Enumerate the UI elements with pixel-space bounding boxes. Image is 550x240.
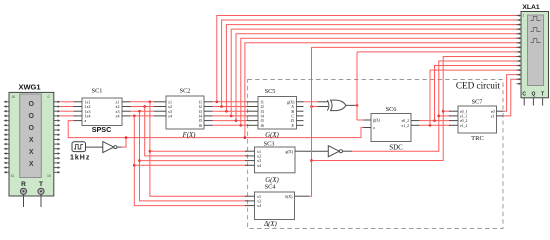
svg-text:T: T xyxy=(541,92,544,98)
svg-text:e1_2: e1_2 xyxy=(402,124,409,128)
svg-text:XLA1: XLA1 xyxy=(522,4,540,11)
svg-text:15: 15 xyxy=(47,174,51,178)
svg-text:0: 0 xyxy=(48,95,50,99)
svg-text:XWG1: XWG1 xyxy=(18,82,40,91)
svg-text:TRC: TRC xyxy=(471,135,484,142)
svg-text:O: O xyxy=(28,113,34,120)
svg-text:SDC: SDC xyxy=(389,144,403,152)
svg-text:e0: e0 xyxy=(491,110,495,114)
svg-text:T: T xyxy=(39,181,43,188)
svg-text:SPSC: SPSC xyxy=(92,125,112,134)
svg-text:Δ(X): Δ(X) xyxy=(263,221,277,228)
svg-text:SC1: SC1 xyxy=(92,87,103,94)
svg-text:f6: f6 xyxy=(261,123,264,128)
svg-text:SC7: SC7 xyxy=(472,99,483,106)
svg-text:O: O xyxy=(28,101,34,108)
svg-text:g̃(X): g̃(X) xyxy=(373,118,381,122)
svg-text:x4: x4 xyxy=(257,163,261,168)
svg-text:e0_2: e0_2 xyxy=(402,119,409,123)
svg-text:1kHz: 1kHz xyxy=(70,155,90,162)
svg-text:SC4: SC4 xyxy=(265,184,277,191)
svg-text:31: 31 xyxy=(11,174,15,178)
svg-text:16: 16 xyxy=(11,95,15,99)
svg-text:e1_1: e1_1 xyxy=(460,115,467,119)
svg-text:e0_2: e0_2 xyxy=(460,119,467,123)
svg-text:1: 1 xyxy=(523,14,525,18)
svg-text:X: X xyxy=(29,137,34,144)
svg-text:Q: Q xyxy=(531,92,535,98)
svg-text:e1: e1 xyxy=(491,115,495,119)
svg-text:e0_1: e0_1 xyxy=(460,110,467,114)
svg-text:SC3: SC3 xyxy=(264,141,275,148)
svg-text:X: X xyxy=(29,161,34,168)
svg-text:x4: x4 xyxy=(168,114,172,119)
svg-text:f6: f6 xyxy=(199,123,202,128)
svg-text:X: X xyxy=(29,149,34,156)
svg-text:g(X): g(X) xyxy=(285,149,293,154)
svg-text:SC2: SC2 xyxy=(180,87,191,94)
svg-text:δ(X): δ(X) xyxy=(285,194,293,199)
svg-text:F(X): F(X) xyxy=(182,132,197,139)
svg-text:SC6: SC6 xyxy=(386,106,397,113)
svg-text:O: O xyxy=(28,125,34,132)
svg-text:e1_2: e1_2 xyxy=(460,124,467,128)
svg-text:CED circuit: CED circuit xyxy=(456,81,501,91)
svg-text:C: C xyxy=(522,92,526,98)
svg-text:SC5: SC5 xyxy=(265,88,276,95)
svg-text:R: R xyxy=(21,181,26,188)
svg-text:x4: x4 xyxy=(257,203,261,208)
svg-text:x4: x4 xyxy=(116,114,120,119)
svg-text:a: a xyxy=(85,118,87,123)
svg-text:G(X): G(X) xyxy=(265,132,279,139)
